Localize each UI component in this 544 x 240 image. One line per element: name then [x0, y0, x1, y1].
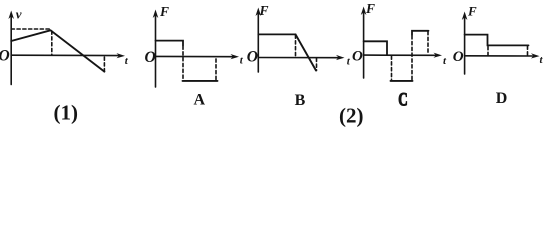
graph A t-axis arrowhead [231, 54, 240, 59]
svg-text:D: D [496, 90, 508, 107]
graph (1) t-axis [11, 54, 120, 56]
graph C dashed shared vertical through axis [411, 35, 413, 80]
graph B constant force segment [258, 33, 295, 35]
svg-text:t: t [540, 54, 544, 66]
svg-text:O: O [453, 49, 464, 65]
svg-text:O: O [247, 48, 258, 65]
graph C second positive pulse top [412, 31, 429, 35]
graph A t-axis [156, 55, 236, 57]
graph D step force curve [465, 35, 529, 46]
graph B dashed vertical at force drop [295, 35, 297, 57]
svg-text:B: B [295, 92, 306, 109]
graph D F-axis arrowhead [462, 12, 468, 21]
graph D t-axis [465, 55, 536, 57]
svg-text:F: F [259, 3, 269, 18]
graph A F-axis [155, 13, 157, 87]
graph (1) dashed vertical at curve end [103, 57, 105, 72]
graph A F-axis arrowhead [153, 10, 159, 19]
svg-text:C: C [398, 90, 408, 111]
graph A positive pulse [156, 41, 184, 46]
graph C dashed right edge of second pulse [427, 32, 429, 55]
svg-text:A: A [194, 91, 206, 108]
svg-text:t: t [125, 55, 129, 67]
graph B dashed vertical at curve end [316, 58, 318, 70]
graph D F-axis [464, 15, 466, 74]
graph C F-axis arrowhead [361, 7, 367, 16]
graph (1) v-axis arrowhead [8, 11, 14, 20]
graph A dashed right edge of negative pulse [215, 58, 217, 80]
svg-text:t: t [240, 55, 244, 67]
graph C dashed left edge of negative pulse [391, 56, 393, 80]
graph B t-axis [258, 57, 340, 59]
graph C t-axis arrowhead [434, 53, 443, 58]
graph D t-axis arrowhead [531, 53, 540, 58]
svg-text:O: O [145, 49, 156, 66]
graph D dashed vertical at curve end [527, 46, 529, 55]
graph A dashed left edge of negative pulse [182, 46, 184, 80]
svg-text:O: O [0, 47, 10, 64]
svg-text:(2): (2) [339, 104, 364, 128]
graph (1) velocity curve [11, 30, 104, 71]
graph C t-axis [364, 54, 438, 56]
svg-text:t: t [347, 56, 351, 68]
graph (1) dashed horizontal at peak level [11, 28, 49, 30]
graph B t-axis arrowhead [336, 55, 345, 60]
graph (1) v-axis [10, 14, 12, 85]
svg-text:(1): (1) [54, 101, 79, 125]
svg-text:v: v [16, 7, 22, 22]
graph C first positive pulse [364, 41, 387, 54]
svg-text:t: t [443, 55, 447, 67]
graph B descending force segment [296, 34, 317, 70]
graph C negative pulse bottom [391, 80, 413, 82]
graph (1) t-axis arrowhead [117, 53, 126, 58]
svg-text:F: F [467, 4, 477, 19]
graph A negative pulse bottom [183, 80, 218, 82]
graph D dashed vertical at first step [487, 47, 489, 56]
graph C F-axis [363, 10, 365, 78]
svg-text:O: O [352, 49, 363, 65]
graph B F-axis [257, 11, 259, 72]
graph B F-axis arrowhead [256, 8, 262, 17]
svg-text:F: F [365, 1, 375, 16]
svg-text:F: F [159, 4, 169, 19]
graph (1) dashed vertical under peak [51, 31, 53, 55]
